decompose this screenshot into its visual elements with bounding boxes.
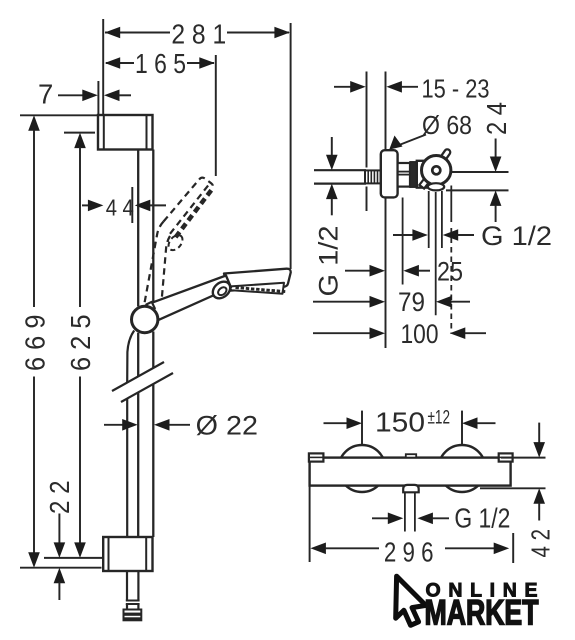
bottom bracket inner line left	[108, 538, 110, 570]
svg-text:G 1/2: G 1/2	[481, 221, 552, 251]
svg-text:2 8 1: 2 8 1	[171, 18, 226, 49]
dim 296 extension line right	[512, 533, 514, 563]
solid hand shower spray face band	[229, 283, 284, 294]
shower hose upper curve left	[127, 331, 134, 383]
svg-text:6 6 9: 6 6 9	[19, 315, 50, 372]
dim 22 lower arrow	[54, 568, 66, 584]
dim 22 upper arrow	[58, 514, 60, 544]
dim 100 wall arrow	[370, 327, 386, 339]
dashed hand shower upper position head outline	[145, 178, 213, 303]
handle circle	[422, 156, 451, 185]
extension line bracket-left x=98.4	[97, 81, 99, 115]
dim 15-23 left-pointing arrow	[386, 81, 402, 93]
dim 281 line	[105, 32, 170, 34]
mixer outlet dome	[403, 485, 419, 492]
slider clamp nub	[146, 302, 155, 311]
svg-text:MARKET: MARKET	[425, 594, 539, 633]
hose break symbol diagonal lower	[121, 373, 173, 402]
dim G 1/2 tail line	[458, 234, 474, 236]
dim G 1/2 right line	[393, 234, 413, 236]
svg-text:4 4: 4 4	[106, 195, 134, 221]
dim G 1/2 right-pointing arrow	[412, 229, 428, 241]
dim 79 wall arrow	[370, 296, 386, 308]
svg-text:4 2: 4 2	[526, 529, 556, 558]
mixer left inlet circle	[339, 445, 386, 492]
svg-text:Ø 68: Ø 68	[422, 112, 472, 140]
dim 25 left line	[345, 270, 370, 272]
hex nut	[398, 163, 410, 187]
dim 625 line with arrows	[74, 133, 86, 149]
dim 150 extension line right	[461, 411, 463, 445]
dim 44 tail line	[150, 204, 166, 206]
dim 42 extension line bottom	[480, 487, 546, 489]
dim 296 extension line left	[309, 486, 311, 562]
dim 281 left arrow	[105, 27, 121, 39]
dashed hand shower spray face thick dashed band	[176, 187, 214, 237]
svg-text:79: 79	[398, 287, 425, 317]
dim 150 left-pointing arrow	[462, 417, 478, 429]
threaded pipe section	[365, 170, 381, 183]
dashed cone at head-handle joint	[166, 232, 186, 252]
spray face nozzle dashes	[236, 288, 286, 292]
hose below bracket left line	[126, 571, 128, 601]
dim 42 extension line top	[501, 457, 546, 459]
wall line right x=385.5	[385, 72, 387, 151]
dim 42 lower arrow	[533, 488, 545, 504]
dim 100 left-pointing arrow	[450, 327, 466, 339]
online market logo cursor	[396, 576, 426, 625]
bottom bracket inner line right	[145, 538, 147, 570]
dim 15-23 tail line	[401, 86, 418, 88]
wall line left x=366.5	[366, 72, 368, 168]
dim 15-23 line	[334, 86, 351, 88]
diameter 68 leader line	[394, 135, 426, 148]
hose below bracket right line	[137, 571, 139, 601]
extension line wall-left x=103	[102, 19, 104, 115]
svg-text:100: 100	[401, 319, 439, 349]
centerline extension right	[452, 171, 509, 173]
svg-text:2 4: 2 4	[481, 102, 512, 135]
dim 44 line left part	[82, 204, 90, 206]
dim G 1/2 mixer tail line	[432, 517, 449, 519]
dim 165 line	[106, 62, 134, 64]
dim 625 top extension line	[64, 132, 95, 134]
dim 165 left arrow	[105, 57, 121, 69]
dim 150 tail line	[477, 422, 496, 424]
svg-text:±12: ±12	[428, 408, 451, 429]
dim G 1/2 mixer left-pointing arrow	[417, 513, 433, 525]
dim 669 line with arrows	[28, 115, 40, 131]
svg-text:Ø 22: Ø 22	[196, 410, 258, 440]
dim 669 bottom extension line	[20, 567, 102, 569]
pipe diameter upper arrow	[331, 137, 333, 155]
dim 25 left-pointing arrow	[403, 265, 419, 277]
mixer body	[310, 458, 511, 486]
svg-text:25: 25	[437, 256, 463, 286]
top bracket of rail	[98, 115, 153, 150]
svg-text:2 9 6: 2 9 6	[384, 536, 434, 567]
extension line shower-head-right x=290.6	[290, 23, 292, 269]
shower hose lower left line	[126, 398, 128, 537]
valve body block	[417, 161, 429, 188]
dim diameter 22 left-pointing arrow	[154, 419, 170, 431]
outlet tube right line	[414, 492, 416, 531]
svg-text:7: 7	[38, 79, 53, 110]
mixer right wall plate	[499, 453, 513, 461]
dim 150 extension line left	[361, 411, 363, 445]
supply pipe lines	[314, 169, 366, 171]
dim 24 upper arrow	[495, 139, 497, 158]
hose break symbol diagonal upper	[112, 362, 164, 391]
rail right line	[152, 150, 154, 308]
dim 7 leader line	[58, 94, 84, 96]
dim 44 extension line x=132.3	[131, 187, 133, 223]
dim 79 left line	[313, 301, 370, 303]
dim 296 left arrow	[310, 543, 326, 555]
dim 79 tail line	[451, 301, 470, 303]
hose end fitting	[124, 610, 142, 621]
dim 42 upper arrow	[538, 423, 540, 443]
dim 25 tail line	[418, 270, 430, 272]
svg-text:15 - 23: 15 - 23	[422, 74, 490, 104]
mixer top center tab	[406, 454, 416, 457]
svg-text:G 1/2: G 1/2	[314, 226, 344, 297]
dim 296 right arrow	[494, 543, 510, 555]
dim G 1/2 mixer left line	[372, 517, 389, 519]
outlet flange ellipse	[428, 183, 444, 190]
dim 25 wall arrow	[370, 265, 386, 277]
mixer right inlet circle	[439, 445, 486, 492]
outlet centerline	[435, 192, 437, 315]
dim 7 right-pointing arrow	[82, 90, 98, 102]
rail left line	[137, 150, 139, 307]
handle bottom extension line	[446, 189, 509, 191]
top bracket inner line right	[146, 116, 148, 149]
handle inner circle	[432, 166, 440, 174]
svg-text:6 2 5: 6 2 5	[65, 315, 96, 372]
dim 44 right-pointing arrow	[88, 200, 104, 212]
dim 669 top extension line	[20, 114, 98, 116]
svg-text:1 6 5: 1 6 5	[135, 48, 186, 79]
dim 7 left-pointing arrow	[104, 90, 120, 102]
dim 150 left line	[324, 422, 348, 424]
slider circle on rail	[132, 306, 158, 332]
solid hand shower head body	[224, 269, 291, 291]
dark ring	[410, 162, 417, 187]
dim 24 lower arrow	[490, 190, 502, 206]
dashed hand shower handle lines	[145, 222, 164, 304]
bottom bracket of rail	[103, 537, 152, 571]
svg-text:150: 150	[375, 406, 425, 437]
extension line head-center x=215.8	[215, 55, 217, 176]
extension line escutcheon front x=402.6	[402, 198, 404, 285]
escutcheon plate	[381, 150, 398, 197]
bottom-left tab	[419, 177, 430, 189]
handle front line solid then dashed	[450, 186, 452, 223]
cone nut at head joint outer ellipse	[210, 278, 234, 301]
dim 296 line	[325, 547, 379, 549]
solid hand shower handle	[151, 276, 231, 320]
pipe diameter lower arrow and G 1/2 leader	[326, 184, 338, 200]
top bracket inner line left	[103, 116, 105, 149]
handle lever tab	[439, 148, 451, 161]
outlet tube right line	[441, 191, 443, 248]
dim G 1/2 left-pointing arrow	[443, 229, 459, 241]
cone nut inner ellipse	[217, 286, 228, 297]
dim G 1/2 mixer right-pointing arrow	[388, 513, 404, 525]
mixer left wall plate	[309, 453, 324, 461]
dim diameter 22 right-pointing arrow	[122, 419, 138, 431]
dim 150 right-pointing arrow	[347, 417, 363, 429]
svg-text:G 1/2: G 1/2	[454, 502, 510, 533]
dim 100 left line	[313, 332, 370, 334]
dim diameter 22 tail line	[169, 424, 190, 426]
hose collar	[126, 600, 140, 602]
dim 7 tail line	[119, 94, 131, 96]
dim 79 left-pointing arrow	[436, 296, 452, 308]
dim 165 right arrow	[199, 57, 215, 69]
svg-text:2 2: 2 2	[44, 481, 75, 515]
dim diameter 22 line	[104, 424, 123, 426]
diameter 68 leader arrow	[389, 136, 402, 150]
outlet tube left line	[404, 492, 406, 531]
outlet tube left line	[428, 191, 430, 248]
dim 281 right arrow	[274, 27, 290, 39]
dim 625 bottom extension line	[44, 557, 104, 559]
dim 44 left-pointing arrow	[135, 200, 151, 212]
dim 15-23 right-pointing arrow	[350, 81, 366, 93]
dim 100 tail line	[465, 332, 486, 334]
